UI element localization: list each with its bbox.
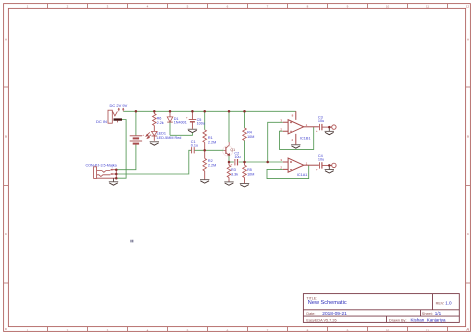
svg-text:5: 5 <box>187 4 189 8</box>
svg-text:IC1B1: IC1B1 <box>300 137 311 141</box>
svg-text:10: 10 <box>386 328 390 332</box>
wire rail to R1 <box>204 111 206 130</box>
svg-text:1: 1 <box>27 4 29 8</box>
svg-text:Date:: Date: <box>306 312 315 316</box>
svg-text:4: 4 <box>147 4 149 8</box>
svg-text:2.2M: 2.2M <box>208 164 216 168</box>
wire C1 to node A to Q1 base <box>195 149 224 151</box>
capacitor C4 10u <box>319 162 321 168</box>
svg-text:10u: 10u <box>234 155 240 159</box>
svg-text:IC1A1: IC1A1 <box>297 173 308 177</box>
wire R2 to ground <box>204 171 206 179</box>
svg-text:+: + <box>316 168 318 172</box>
ground under C5 <box>188 128 197 130</box>
diode D1 1N4001 <box>169 111 171 117</box>
svg-text:LED-5MM Red: LED-5MM Red <box>157 136 182 140</box>
svg-text:C: C <box>467 232 470 236</box>
svg-text:3: 3 <box>107 4 109 8</box>
wire R5 to ground <box>244 178 246 184</box>
svg-text:1N4001: 1N4001 <box>174 121 187 125</box>
svg-text:6: 6 <box>227 4 229 8</box>
svg-text:10: 10 <box>386 4 390 8</box>
svg-text:REV:: REV: <box>436 301 445 305</box>
svg-text:B: B <box>5 135 7 139</box>
op-amp IC1B <box>283 111 319 144</box>
svg-text:10M: 10M <box>247 135 254 139</box>
svg-text:A: A <box>5 38 7 42</box>
wire C2 to op-amp inputs <box>239 161 283 163</box>
wire C3 to pad <box>322 126 331 128</box>
wire node B to C2 <box>229 161 234 163</box>
wire battery top <box>135 111 137 135</box>
svg-text:11: 11 <box>426 328 429 332</box>
LED1 arrows <box>146 132 151 138</box>
wire C4 to pad <box>322 164 331 166</box>
ground under audio jack <box>113 178 115 181</box>
resistor R4 <box>243 128 247 141</box>
svg-text:7: 7 <box>267 4 269 8</box>
output pad P1 <box>332 125 336 129</box>
svg-text:8: 8 <box>307 4 309 8</box>
capacitor C2 10u <box>234 159 236 165</box>
wire rail to Q1 collector <box>228 111 230 142</box>
wire node D up to IC1B pin3 <box>268 122 283 162</box>
svg-text:EasyEDA V5.7.26: EasyEDA V5.7.26 <box>306 318 336 322</box>
wire IC1A feedback loop <box>267 165 309 178</box>
DC jack sleeve bar <box>114 118 123 120</box>
resistor R5 <box>243 165 247 177</box>
wire R4 to node C <box>244 141 246 163</box>
wire audio signal to C1 <box>116 150 191 174</box>
svg-text:10u: 10u <box>318 157 324 161</box>
output pad P2 <box>332 163 336 167</box>
svg-text:2.2k: 2.2k <box>157 121 164 125</box>
wire R3 to ground <box>228 178 230 182</box>
wire node B to R3 <box>228 162 230 165</box>
svg-text:2: 2 <box>67 4 69 8</box>
wire IC1B feedback loop <box>280 127 314 149</box>
junction dots <box>135 110 138 113</box>
svg-text:CON-PJ-3.5-Majka: CON-PJ-3.5-Majka <box>86 163 118 167</box>
svg-text:100u: 100u <box>197 122 205 126</box>
svg-text:C: C <box>5 232 8 236</box>
svg-text:A: A <box>467 38 469 42</box>
svg-text:+: + <box>231 163 233 167</box>
wire rail to R4 <box>244 111 246 128</box>
battery B1 <box>130 136 142 144</box>
ground under LED1 <box>150 141 159 143</box>
op-amp IC1A <box>283 158 319 172</box>
ground under R5 <box>240 183 249 185</box>
svg-text:D: D <box>467 327 470 331</box>
svg-text:3.3k: 3.3k <box>231 173 238 177</box>
wire battery bottom to jack pin1 <box>116 144 136 170</box>
wire D1-C5 bottom <box>170 133 192 136</box>
LED LED1 <box>153 126 155 132</box>
svg-text:D: D <box>5 327 8 331</box>
resistor R1 <box>203 130 207 143</box>
svg-text:11: 11 <box>426 4 429 8</box>
capacitor C5 100u <box>191 111 193 119</box>
svg-text:+: + <box>186 116 188 120</box>
ground at C3 output <box>328 127 330 131</box>
svg-text:12: 12 <box>466 4 470 8</box>
resistor R2 <box>203 158 207 171</box>
border tick marks left/right <box>4 87 471 283</box>
svg-text:4: 4 <box>291 138 293 142</box>
connector CON1 3.5mm audio jack <box>94 167 117 179</box>
svg-text:10u: 10u <box>318 119 324 123</box>
svg-text:10M: 10M <box>247 173 254 177</box>
ground under IC1B pin4 <box>291 144 300 146</box>
wire R1 to node A <box>204 142 206 150</box>
wire node C to R5 <box>244 162 246 165</box>
svg-text:New Schematic: New Schematic <box>308 300 347 306</box>
svg-text:9: 9 <box>347 4 349 8</box>
svg-text:+: + <box>316 129 318 133</box>
svg-text:B: B <box>467 135 469 139</box>
svg-text:1.0: 1.0 <box>445 301 452 306</box>
svg-text:2.2M: 2.2M <box>208 141 216 145</box>
resistor R3 <box>227 165 231 177</box>
svg-text:1/1: 1/1 <box>435 311 442 316</box>
svg-text:0.1u: 0.1u <box>191 144 198 148</box>
capacitor C3 10u <box>319 124 321 130</box>
title block <box>303 294 459 323</box>
svg-text:DC 2V 9V: DC 2V 9V <box>110 103 128 108</box>
ground at C4 output <box>328 165 330 169</box>
svg-text:8: 8 <box>292 114 294 118</box>
transistor Q1 <box>223 146 233 156</box>
resistor R6 <box>153 111 155 113</box>
svg-text:DC IN: DC IN <box>96 119 107 124</box>
connector J1 DC barrel jack <box>108 108 124 123</box>
svg-text:Kishan_Kanjariya: Kishan_Kanjariya <box>411 318 447 323</box>
wire VCC rail <box>123 110 295 112</box>
ground under R2 <box>200 179 209 181</box>
capacitor C1 0.1u <box>192 147 195 153</box>
wire Q1 emitter to node B <box>228 156 230 162</box>
wire DC jack sleeve to audio jack pin3 <box>116 120 126 179</box>
ground under R3 <box>224 181 233 183</box>
svg-text:2018-09-21: 2018-09-21 <box>322 311 347 317</box>
wire node A to R2 <box>204 150 206 158</box>
cursor mark <box>131 240 133 243</box>
svg-text:+: + <box>142 133 144 137</box>
svg-text:Drawn By:: Drawn By: <box>389 318 407 322</box>
svg-text:Sheet:: Sheet: <box>422 312 433 316</box>
